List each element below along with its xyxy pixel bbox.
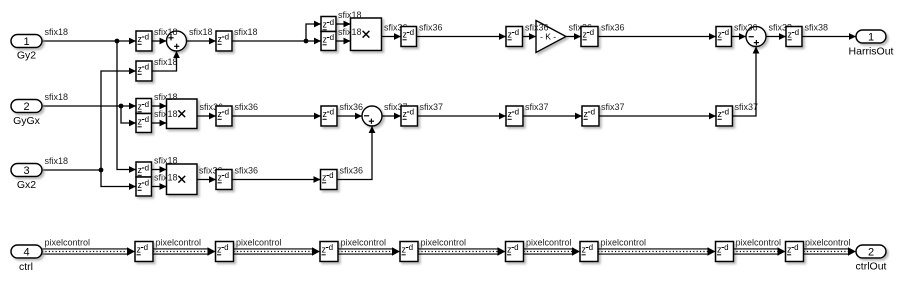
delay block P2 lower (z^-d) bbox=[136, 114, 152, 133]
wire P2 upper to M2 bbox=[152, 103, 167, 110]
svg-text:z: z bbox=[403, 109, 408, 119]
svg-text:pixelcontrol: pixelcontrol bbox=[526, 238, 572, 248]
delay block P2 upper (z^-d) bbox=[136, 99, 152, 114]
svg-text:d: d bbox=[145, 33, 149, 42]
signal label pixelcontrol label 1 bbox=[45, 238, 91, 248]
svg-text:z: z bbox=[788, 30, 793, 40]
wire M3 to D14 bbox=[197, 176, 216, 183]
svg-text:sfix18: sfix18 bbox=[189, 27, 213, 37]
svg-text:d: d bbox=[225, 108, 229, 117]
svg-text:z: z bbox=[138, 180, 143, 190]
svg-text:2: 2 bbox=[868, 247, 874, 259]
delay block D2 (z^-d) bbox=[216, 31, 232, 51]
svg-text:d: d bbox=[144, 243, 148, 252]
sum block S2 (det = Gx2*Gy2 - GyGx^2) bbox=[362, 106, 382, 126]
signal label sfix36 after D3 bbox=[419, 23, 443, 33]
signal label sfix18 Gx2 bbox=[45, 156, 69, 166]
svg-text:d: d bbox=[225, 171, 229, 180]
svg-text:ctrlOut: ctrlOut bbox=[856, 261, 887, 273]
svg-text:d: d bbox=[145, 164, 149, 173]
product block M2 (GyGx squared) bbox=[167, 99, 198, 129]
wire D15 up to S2 bottom input bbox=[337, 126, 375, 180]
svg-text:d: d bbox=[724, 243, 728, 252]
bus wire pixelcontrol segment 9 bbox=[804, 247, 857, 255]
signal label sfix38 after D7 bbox=[805, 23, 829, 33]
svg-text:d: d bbox=[725, 108, 729, 117]
signal label sfix38 after S3 bbox=[769, 23, 793, 33]
wire D5 to D6 bbox=[598, 33, 716, 40]
wire S3 to D7 bbox=[766, 33, 786, 40]
signal label sfix36 after M1 bbox=[384, 23, 408, 33]
wire D8 to D9 bbox=[232, 113, 321, 120]
svg-text:sfix18: sfix18 bbox=[338, 27, 362, 37]
svg-text:sfix18: sfix18 bbox=[154, 92, 178, 102]
wire M1 to D3 bbox=[382, 33, 402, 40]
svg-text:d: d bbox=[515, 108, 519, 117]
svg-text:2: 2 bbox=[23, 101, 29, 113]
signal label sfix18 after P1 upper bbox=[338, 10, 362, 20]
delay block D11 (z^-d) bbox=[506, 106, 523, 126]
svg-text:HarrisOut: HarrisOut bbox=[849, 46, 894, 58]
svg-text:z: z bbox=[323, 109, 328, 119]
svg-text:d: d bbox=[145, 115, 149, 124]
svg-text:z: z bbox=[322, 173, 327, 183]
svg-text:z: z bbox=[138, 64, 143, 74]
svg-text:sfix36: sfix36 bbox=[601, 23, 625, 33]
svg-text:GyGx: GyGx bbox=[13, 115, 41, 127]
signal label sfix18 after D1 bbox=[154, 27, 178, 37]
svg-text:z: z bbox=[507, 245, 512, 255]
svg-text:sfix36: sfix36 bbox=[419, 23, 443, 33]
signal label sfix37 after D11 bbox=[525, 102, 549, 112]
outport 1 HarrisOut bbox=[849, 30, 894, 58]
product block M3 (Gx2*Gy2) bbox=[167, 164, 198, 195]
signal label sfix18 after P3 lower bbox=[154, 173, 178, 183]
svg-text:z: z bbox=[583, 30, 588, 40]
svg-text:d: d bbox=[589, 243, 593, 252]
signal label sfix18 after D1b bbox=[154, 57, 178, 67]
delay block D4 (z^-d) bbox=[506, 27, 523, 47]
svg-text:d: d bbox=[330, 33, 334, 42]
signal label pixelcontrol label 3 bbox=[236, 238, 282, 248]
svg-text:sfix18: sfix18 bbox=[154, 109, 178, 119]
svg-text:1: 1 bbox=[868, 32, 874, 44]
svg-text:pixelcontrol: pixelcontrol bbox=[156, 238, 202, 248]
bus wire pixelcontrol segment 6 bbox=[524, 247, 581, 255]
delay block D1 (z^-d) bbox=[136, 31, 152, 51]
gain block K (-K-) bbox=[536, 21, 566, 53]
wire net B Gx2 down to P3 lower bbox=[101, 170, 136, 190]
wire D11 to D12 bbox=[523, 113, 582, 120]
inport 2 GyGx bbox=[11, 100, 42, 128]
signal label sfix36 after gain K bbox=[569, 23, 593, 33]
signal label sfix36 after M3 bbox=[199, 166, 223, 176]
svg-text:z: z bbox=[582, 245, 587, 255]
signal label sfix36 after D4 bbox=[525, 23, 549, 33]
signal label sfix37 after D12 bbox=[601, 102, 625, 112]
svg-text:z: z bbox=[137, 245, 142, 255]
svg-text:d: d bbox=[514, 243, 518, 252]
wire D1 to S1 bbox=[152, 38, 167, 45]
svg-text:z: z bbox=[138, 34, 143, 44]
svg-text:z: z bbox=[718, 30, 723, 40]
delay block P3 lower (z^-d) bbox=[136, 177, 152, 196]
svg-text:sfix18: sfix18 bbox=[234, 27, 258, 37]
svg-text:d: d bbox=[224, 243, 228, 252]
svg-text:z: z bbox=[323, 35, 328, 45]
svg-text:z: z bbox=[402, 245, 407, 255]
delay block CD3 (z^-d) bbox=[320, 242, 338, 262]
signal label sfix18 after P2 lower bbox=[154, 109, 178, 119]
svg-text:d: d bbox=[329, 243, 333, 252]
delay block P1 lower (z^-d) bbox=[321, 32, 336, 51]
delay block D1b (z^-d) bbox=[136, 61, 152, 81]
signal label sfix37 after S2 bbox=[384, 102, 408, 112]
svg-text:sfix37: sfix37 bbox=[601, 102, 625, 112]
svg-text:d: d bbox=[725, 28, 729, 37]
bus wire pixelcontrol segment 5 bbox=[418, 247, 506, 255]
signal label sfix37 after D13 bbox=[735, 102, 759, 112]
svg-text:d: d bbox=[409, 243, 413, 252]
svg-text:z: z bbox=[508, 109, 513, 119]
svg-text:sfix18: sfix18 bbox=[45, 27, 69, 37]
wire Gy2 to D1 bbox=[42, 38, 136, 45]
signal label pixelcontrol label 7 bbox=[601, 238, 647, 248]
wire P1 lower to M1 bbox=[336, 38, 351, 45]
delay block D3 (z^-d) bbox=[401, 27, 417, 47]
signal label pixelcontrol label 9 bbox=[805, 238, 851, 248]
delay block D7 (z^-d) bbox=[786, 27, 802, 47]
svg-text:Gx2: Gx2 bbox=[17, 179, 36, 191]
svg-text:d: d bbox=[145, 100, 149, 109]
delay block D13 (z^-d) bbox=[716, 106, 733, 126]
wire D2 to P1 lower bbox=[232, 38, 321, 45]
inport 1 Gy2 bbox=[11, 35, 42, 62]
svg-text:pixelcontrol: pixelcontrol bbox=[805, 238, 851, 248]
delay block D10 (z^-d) bbox=[401, 106, 418, 126]
svg-text:4: 4 bbox=[23, 247, 29, 259]
svg-text:d: d bbox=[590, 28, 594, 37]
bus wire pixelcontrol segment 1 bbox=[42, 247, 135, 255]
svg-text:d: d bbox=[410, 28, 414, 37]
wire P2 lower to M2 bbox=[152, 120, 167, 127]
signal label sfix37 after D10 bbox=[420, 102, 444, 112]
signal label sfix18 GyGx bbox=[45, 92, 69, 102]
delay block CD6 (z^-d) bbox=[580, 242, 598, 262]
svg-text:d: d bbox=[515, 28, 519, 37]
inport 3 Gx2 bbox=[11, 164, 42, 192]
svg-text:d: d bbox=[795, 28, 799, 37]
svg-text:d: d bbox=[145, 179, 149, 188]
svg-text:ctrl: ctrl bbox=[19, 261, 33, 273]
svg-text:3: 3 bbox=[23, 165, 29, 177]
delay block D9 (z^-d) bbox=[321, 106, 337, 126]
svg-text:d: d bbox=[329, 171, 333, 180]
svg-text:d: d bbox=[330, 108, 334, 117]
delay block D12 (z^-d) bbox=[582, 106, 599, 126]
wire P3 upper to M3 bbox=[152, 166, 167, 173]
svg-text:d: d bbox=[794, 243, 798, 252]
svg-text:pixelcontrol: pixelcontrol bbox=[736, 238, 782, 248]
svg-text:1: 1 bbox=[23, 36, 29, 48]
wire D7 to HarrisOut bbox=[802, 33, 856, 40]
signal label pixelcontrol label 6 bbox=[526, 238, 572, 248]
signal label sfix36 after D8 bbox=[235, 102, 259, 112]
delay block P1 upper (z^-d) bbox=[321, 17, 336, 32]
signal label sfix36 after D14 bbox=[235, 166, 259, 176]
svg-text:d: d bbox=[225, 33, 229, 42]
wire gain K to D5 bbox=[566, 33, 581, 40]
svg-text:Gy2: Gy2 bbox=[17, 50, 36, 62]
wire S1 to D2 bbox=[187, 38, 217, 45]
svg-text:sfix36: sfix36 bbox=[235, 166, 259, 176]
svg-text:z: z bbox=[217, 245, 222, 255]
svg-text:sfix18: sfix18 bbox=[338, 10, 362, 20]
delay block D14 (z^-d) bbox=[216, 170, 232, 190]
delay block CD1 (z^-d) bbox=[135, 242, 153, 262]
wire net B Gx2 up to D1b bbox=[101, 68, 136, 170]
wire P3 lower to M3 bbox=[152, 183, 167, 190]
svg-text:z: z bbox=[138, 117, 143, 127]
svg-text:d: d bbox=[591, 108, 595, 117]
svg-text:z: z bbox=[403, 30, 408, 40]
delay block D8 (z^-d) bbox=[216, 106, 232, 126]
wire M2 to D8 bbox=[197, 113, 216, 120]
svg-text:pixelcontrol: pixelcontrol bbox=[341, 238, 387, 248]
wire Gx2 to junction B bbox=[42, 168, 103, 173]
wire D9 to S2 bbox=[337, 113, 362, 120]
bus wire pixelcontrol segment 8 bbox=[733, 247, 786, 255]
wire D13 up to S3 bottom input bbox=[733, 47, 760, 117]
delay block CD5 (z^-d) bbox=[506, 242, 524, 262]
svg-text:sfix36: sfix36 bbox=[340, 102, 364, 112]
bus wire pixelcontrol segment 4 bbox=[338, 247, 400, 255]
signal label sfix36 after D6 bbox=[734, 23, 758, 33]
svg-text:- K -: - K - bbox=[540, 32, 556, 42]
svg-text:sfix18: sfix18 bbox=[45, 156, 69, 166]
signal label pixelcontrol label 4 bbox=[341, 238, 387, 248]
svg-text:sfix36: sfix36 bbox=[525, 23, 549, 33]
svg-text:pixelcontrol: pixelcontrol bbox=[45, 238, 91, 248]
signal label sfix36 after D9 bbox=[340, 102, 364, 112]
signal label pixelcontrol label 5 bbox=[421, 238, 467, 248]
svg-text:pixelcontrol: pixelcontrol bbox=[236, 238, 282, 248]
svg-text:z: z bbox=[323, 20, 328, 30]
signal label sfix18 after P2 upper bbox=[154, 92, 178, 102]
svg-text:sfix18: sfix18 bbox=[154, 156, 178, 166]
bus wire pixelcontrol segment 2 bbox=[153, 247, 216, 255]
svg-text:z: z bbox=[508, 30, 513, 40]
wire branch to P1 upper bbox=[306, 21, 321, 41]
svg-text:sfix36: sfix36 bbox=[734, 23, 758, 33]
svg-text:z: z bbox=[218, 34, 223, 44]
signal label sfix18 after P3 upper bbox=[154, 156, 178, 166]
svg-text:sfix36: sfix36 bbox=[235, 102, 259, 112]
delay block D5 (z^-d) bbox=[581, 27, 598, 47]
signal label sfix36 after D15 bbox=[340, 166, 364, 176]
product block M1 (trace squared) bbox=[351, 18, 382, 51]
svg-text:sfix18: sfix18 bbox=[154, 27, 178, 37]
svg-text:sfix38: sfix38 bbox=[805, 23, 829, 33]
signal label sfix18 after D2 bbox=[234, 27, 258, 37]
wire D4 to gain K bbox=[523, 33, 537, 40]
svg-text:sfix18: sfix18 bbox=[45, 92, 69, 102]
sum block S1 (trace = Gy2+Gx2) bbox=[167, 31, 187, 51]
delay block CD8 (z^-d) bbox=[786, 242, 804, 262]
signal label pixelcontrol label 2 bbox=[156, 238, 202, 248]
wire net A Gy2 down to P3 upper bbox=[117, 41, 136, 173]
svg-text:z: z bbox=[322, 245, 327, 255]
svg-text:z: z bbox=[787, 245, 792, 255]
wire GyGx to P2 upper bbox=[42, 103, 136, 110]
svg-text:sfix37: sfix37 bbox=[735, 102, 759, 112]
svg-text:sfix18: sfix18 bbox=[154, 57, 178, 67]
delay block D6 (z^-d) bbox=[716, 27, 732, 47]
wire D10 to D11 bbox=[418, 113, 507, 120]
signal label pixelcontrol label 8 bbox=[736, 238, 782, 248]
signal label sfix36 after D5 bbox=[601, 23, 625, 33]
wire S2 to D10 bbox=[382, 113, 401, 120]
signal label sfix18 after P1 lower bbox=[338, 27, 362, 37]
wire D14 to D15 bbox=[232, 176, 321, 183]
outport 2 ctrlOut bbox=[856, 245, 887, 273]
wire branch GyGx to P2 lower bbox=[121, 106, 136, 126]
bus wire pixelcontrol segment 3 bbox=[234, 247, 321, 255]
svg-text:z: z bbox=[717, 245, 722, 255]
wire P1 upper to M1 bbox=[336, 21, 351, 28]
delay block D15 (z^-d) bbox=[321, 170, 338, 190]
svg-text:z: z bbox=[138, 102, 143, 112]
svg-text:pixelcontrol: pixelcontrol bbox=[601, 238, 647, 248]
svg-text:sfix37: sfix37 bbox=[420, 102, 444, 112]
wire D3 to D4 bbox=[417, 33, 507, 40]
svg-text:z: z bbox=[584, 109, 589, 119]
svg-text:d: d bbox=[330, 18, 334, 27]
svg-text:d: d bbox=[410, 108, 414, 117]
inport 4 ctrl bbox=[11, 245, 42, 273]
svg-text:z: z bbox=[718, 109, 723, 119]
delay block CD4 (z^-d) bbox=[400, 242, 418, 262]
svg-text:sfix36: sfix36 bbox=[340, 166, 364, 176]
svg-text:sfix18: sfix18 bbox=[154, 173, 178, 183]
signal label sfix18 after S1 bbox=[189, 27, 213, 37]
wire D12 to D13 bbox=[599, 113, 716, 120]
bus wire pixelcontrol segment 7 bbox=[598, 247, 716, 255]
svg-text:d: d bbox=[145, 63, 149, 72]
delay block CD7 (z^-d) bbox=[716, 242, 734, 262]
sum block S3 (det - k*trace^2) bbox=[746, 27, 766, 47]
delay block CD2 (z^-d) bbox=[216, 242, 234, 262]
signal label sfix18 Gy2 bbox=[45, 27, 69, 37]
wire D1b to S1 bottom input bbox=[152, 51, 180, 71]
svg-text:sfix37: sfix37 bbox=[525, 102, 549, 112]
svg-text:pixelcontrol: pixelcontrol bbox=[421, 238, 467, 248]
svg-text:z: z bbox=[138, 165, 143, 175]
signal label sfix36 after M2 bbox=[200, 102, 224, 112]
svg-text:z: z bbox=[218, 109, 223, 119]
svg-text:z: z bbox=[218, 173, 223, 183]
delay block P3 upper (z^-d) bbox=[136, 162, 152, 177]
wire D6 to S3 bbox=[732, 33, 747, 40]
